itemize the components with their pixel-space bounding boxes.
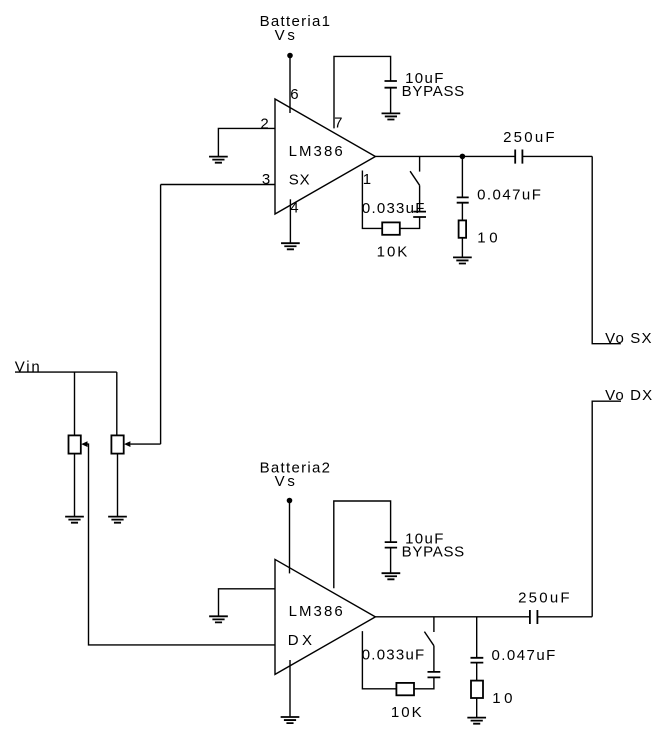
wire switch stub SX: [419, 156, 421, 171]
svg-text:LM386: LM386: [289, 603, 343, 620]
svg-text:LM386: LM386: [289, 143, 343, 160]
wire pin4 SX: [289, 199, 291, 243]
wire wiper P2: [130, 443, 160, 445]
capacitor 250uF SX: [515, 150, 522, 164]
wire wiper P2 up to pin3 SX: [160, 185, 162, 445]
wire 10K to pin1 SX: [362, 171, 382, 229]
svg-text:3: 3: [262, 171, 270, 188]
svg-text:1: 1: [363, 171, 371, 188]
capacitor 10uF BYPASS SX: [385, 81, 397, 88]
svg-text:Vo SX: Vo SX: [605, 330, 651, 347]
svg-text:SX: SX: [289, 171, 310, 188]
svg-text:6: 6: [290, 86, 298, 103]
wire 0.047uF to resistor DX: [476, 663, 478, 681]
wire 0.033uF to 10K SX: [400, 217, 420, 228]
wire resistor 10 to ground DX: [476, 698, 478, 718]
svg-text:250uF: 250uF: [503, 129, 554, 146]
wire Vin to pot2: [116, 372, 118, 435]
wire 0.033uF to 10K DX: [414, 677, 434, 688]
capacitor 0.047uF SX: [457, 197, 469, 202]
svg-text:BYPASS: BYPASS: [402, 83, 465, 100]
svg-text:BYPASS: BYPASS: [402, 544, 465, 561]
svg-text:10K: 10K: [377, 244, 408, 261]
wire pot1 to ground: [74, 454, 76, 517]
capacitor 250uF DX: [530, 610, 538, 624]
ground bypass DX: [382, 573, 401, 579]
svg-text:Vin: Vin: [15, 359, 40, 376]
wire 10K to pin1 DX: [362, 631, 396, 689]
wire output DX: [375, 616, 530, 618]
wire 0.047uF to resistor SX: [461, 203, 463, 221]
wire bypass cap to ground DX: [390, 548, 392, 574]
switch blade DX: [424, 632, 434, 646]
resistor 10K DX: [396, 683, 414, 695]
wire pin6 supply SX: [289, 56, 291, 114]
wire switch stub DX: [433, 617, 435, 632]
wiper arrow P1: [81, 441, 87, 447]
wire junction to 0.047uF DX: [476, 617, 478, 657]
svg-text:2: 2: [260, 116, 268, 133]
ground bypass SX: [382, 113, 401, 119]
wire pin7 DX to bypass cap: [334, 501, 391, 588]
wire to Vo SX: [592, 156, 621, 343]
resistor 10 DX: [471, 681, 483, 698]
wire bypass cap to ground SX: [390, 88, 392, 114]
ground pot2: [108, 517, 127, 523]
wire wiper P1 to pin3 DX: [88, 444, 276, 645]
node output junction SX: [460, 154, 466, 160]
potentiometer P1: [69, 435, 81, 453]
wiper arrow P2: [124, 441, 130, 447]
wire pin2 SX to ground: [218, 128, 275, 157]
op-amp U2 LM386 DX: [275, 559, 375, 674]
wire output SX: [375, 155, 515, 157]
wire pot2 to ground: [117, 454, 119, 517]
wire junction to 0.047uF SX: [461, 156, 463, 197]
wire Vin to pot1: [74, 372, 76, 435]
wire resistor 10 to ground SX: [461, 238, 463, 258]
svg-text:4: 4: [290, 199, 298, 216]
svg-text:0.033uF: 0.033uF: [362, 647, 425, 664]
op-amp U1 LM386 SX: [275, 99, 375, 214]
capacitor 0.033uF SX: [413, 212, 426, 217]
capacitor 10uF BYPASS DX: [385, 542, 397, 548]
wire pin2 DX to ground: [219, 589, 276, 617]
ground pin4 SX: [281, 243, 300, 249]
wire switch to 0.033uF DX: [433, 646, 435, 672]
svg-text:Vo DX: Vo DX: [605, 387, 652, 404]
node Vs Batteria1: [287, 53, 293, 59]
ground pot1: [65, 517, 84, 523]
svg-text:0.047uF: 0.047uF: [492, 647, 556, 664]
node Vs Batteria2: [287, 498, 293, 504]
wire after 250uF DX: [537, 616, 592, 618]
resistor 10 SX: [459, 220, 467, 237]
wire switch to 0.033uF SX: [419, 185, 421, 211]
wire pin4 DX: [289, 660, 291, 717]
svg-text:0.047uF: 0.047uF: [477, 187, 541, 204]
potentiometer P2: [111, 435, 123, 453]
svg-text:250uF: 250uF: [518, 590, 570, 607]
switch blade SX: [410, 171, 420, 185]
svg-text:0.033uF: 0.033uF: [362, 200, 425, 217]
ground zobel SX: [453, 257, 472, 263]
ground pin4 DX: [281, 717, 300, 723]
capacitor 0.033uF DX: [428, 672, 441, 678]
wire pin3 SX input: [161, 184, 275, 186]
ground zobel DX: [467, 718, 486, 724]
wire pin6 supply DX: [289, 501, 291, 574]
svg-text:10K: 10K: [391, 704, 422, 721]
wire to Vo DX: [592, 401, 621, 617]
ground pin2 DX: [209, 616, 228, 622]
wire Vin: [15, 371, 117, 373]
wire after 250uF SX: [522, 155, 592, 157]
ground pin2 SX: [209, 157, 228, 163]
capacitor 0.047uF DX: [471, 658, 484, 663]
resistor 10K SX: [382, 222, 400, 234]
svg-text:7: 7: [334, 114, 342, 131]
wire pin7 SX to bypass cap: [334, 56, 391, 128]
